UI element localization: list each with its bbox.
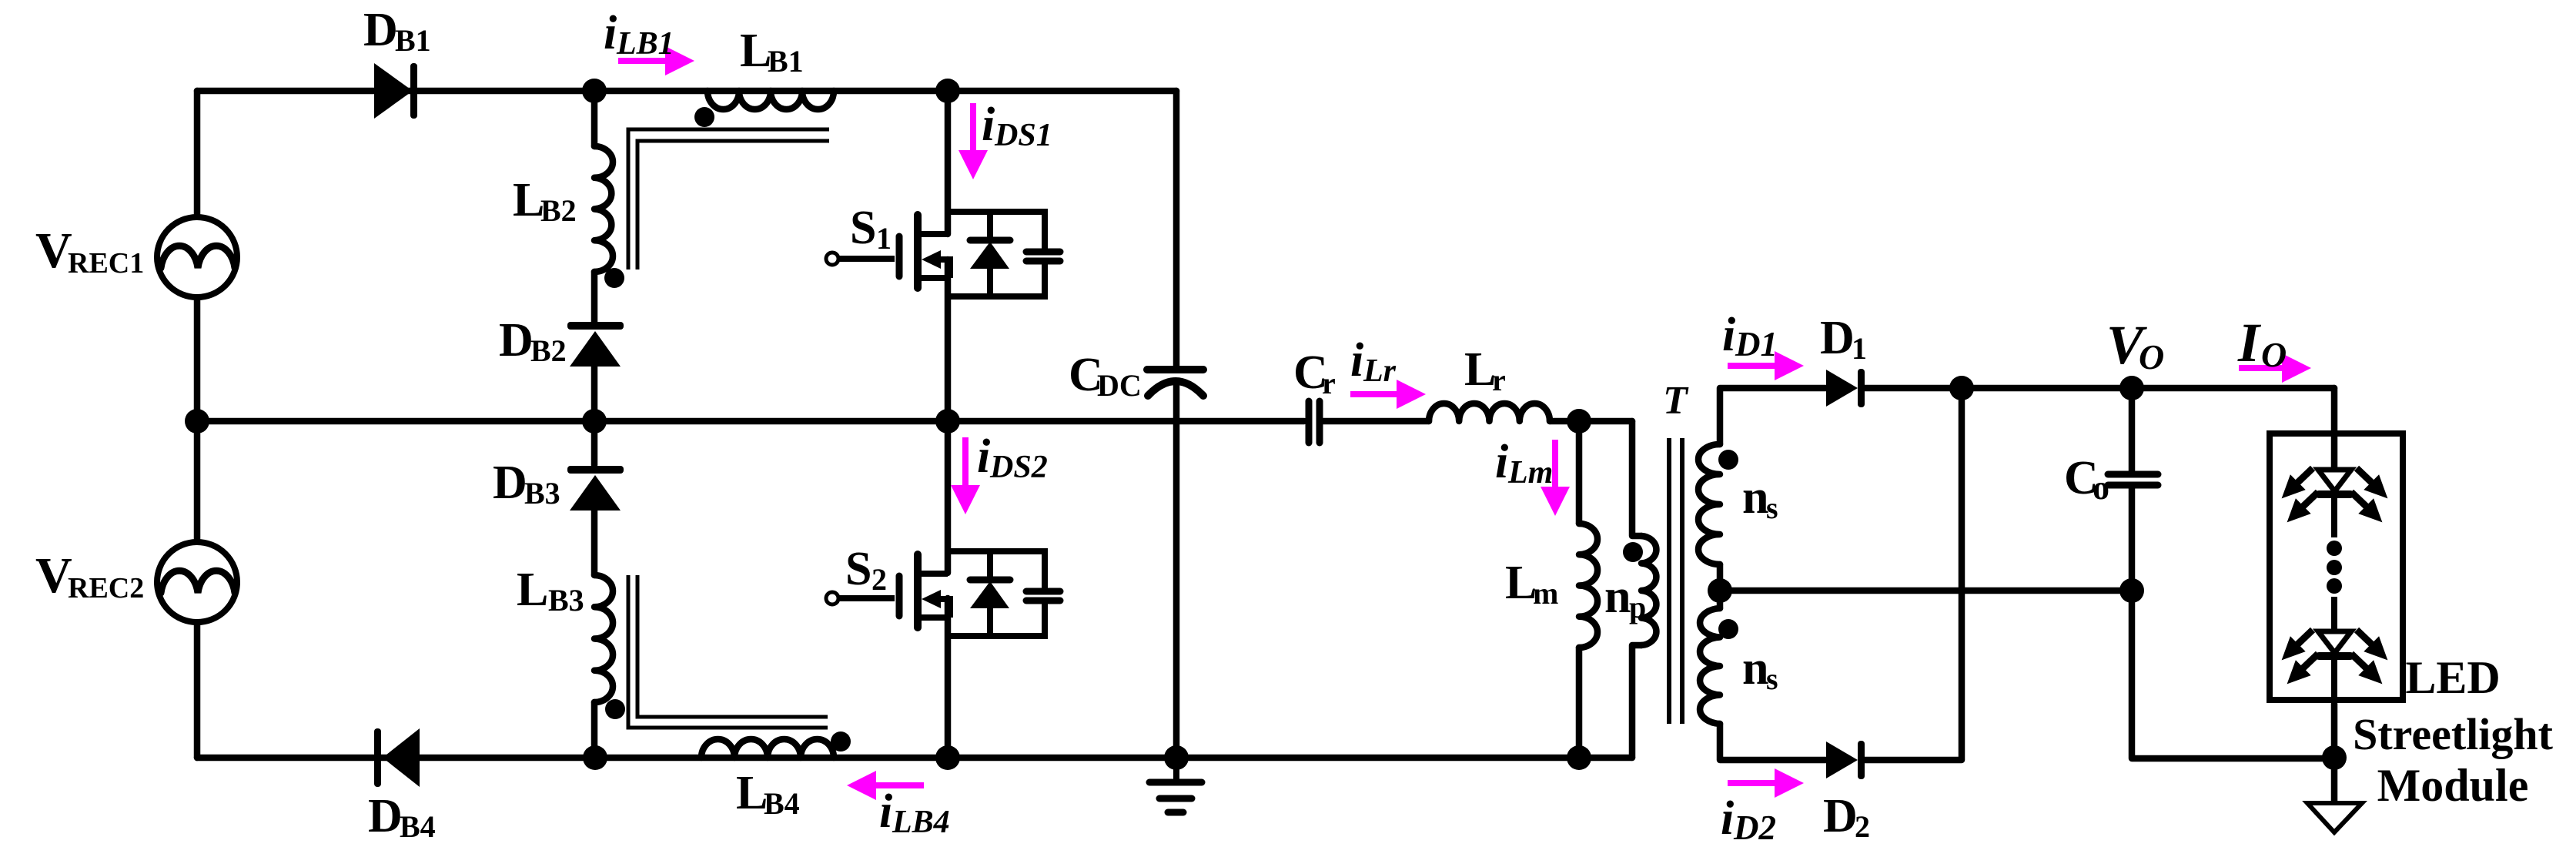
- junction node bottom rail / Lm: [1567, 745, 1591, 770]
- wire bottom rail: [197, 755, 1632, 762]
- svg-text:i: i: [977, 430, 990, 483]
- diode DB1: [374, 63, 417, 119]
- core lines LB3-LB4 (inner L): [637, 575, 828, 717]
- MOSFET S1 with body diode and capacitor: [826, 212, 1060, 296]
- svg-text:D: D: [363, 4, 398, 56]
- wire np top column: [1632, 421, 1641, 536]
- wire LB2 column top: [591, 91, 598, 146]
- svg-text:S: S: [845, 543, 871, 595]
- svg-text:LB1: LB1: [616, 26, 674, 62]
- svg-text:r: r: [1322, 366, 1336, 400]
- svg-text:DS1: DS1: [994, 118, 1052, 153]
- wire center tap to Co: [1720, 588, 2132, 594]
- capacitor Co: [2108, 474, 2158, 485]
- svg-text:2: 2: [1855, 809, 1870, 844]
- current arrow iD1: [1728, 351, 1804, 380]
- wire D2 to output column: [1865, 388, 1962, 760]
- junction node top rail / LB2: [582, 79, 607, 103]
- transformer primary winding np: [1641, 536, 1656, 645]
- wire LB2 column to DB2: [591, 272, 598, 323]
- svg-text:m: m: [1533, 576, 1558, 611]
- junction node middle rail / VREC: [185, 409, 209, 434]
- svg-text:n: n: [1604, 571, 1631, 623]
- core lines LB1-LB2 (inner L): [637, 141, 829, 269]
- polarity dot np: [1623, 542, 1643, 562]
- LED series dots: [2327, 541, 2342, 594]
- transformer secondary winding ns bottom: [1700, 608, 1720, 724]
- polarity dot LB4: [831, 731, 851, 752]
- svg-text:D: D: [1820, 312, 1855, 364]
- svg-text:B4: B4: [400, 809, 436, 844]
- svg-text:D: D: [368, 790, 403, 842]
- wire VREC1 bottom to middle rail: [194, 298, 201, 421]
- svg-text:V: V: [35, 223, 72, 279]
- wire DB2 to middle rail: [591, 367, 598, 421]
- svg-text:D1: D1: [1735, 325, 1778, 363]
- svg-text:i: i: [1350, 334, 1363, 387]
- svg-text:1: 1: [1852, 331, 1867, 366]
- svg-text:B3: B3: [548, 583, 584, 618]
- wire CDC column top: [1173, 91, 1180, 367]
- polarity dot ns top: [1718, 450, 1738, 470]
- svg-text:i: i: [604, 7, 617, 59]
- AC source VREC2: [157, 542, 237, 622]
- svg-text:B1: B1: [768, 44, 804, 79]
- junction node bottom rail / S2 source: [935, 745, 960, 770]
- current arrow iLm: [1541, 440, 1570, 516]
- ground (primary, below CDC column): [1149, 758, 1202, 812]
- svg-text:V: V: [35, 547, 72, 604]
- junction node middle rail / DB2-DB3: [582, 409, 607, 434]
- wire VREC2 bottom to bottom rail: [194, 623, 201, 758]
- inductor LB1: [708, 91, 834, 109]
- inductor LB2: [594, 146, 613, 272]
- svg-text:s: s: [1766, 490, 1778, 525]
- wire CDC column bottom (crosses middle rail, to ground rail): [1173, 383, 1180, 758]
- core lines LB1-LB2 (outer L): [628, 129, 829, 269]
- svg-text:Lr: Lr: [1363, 353, 1397, 389]
- junction node VO: [2119, 376, 2144, 400]
- wire left column upper (VREC1 to top rail): [194, 91, 201, 216]
- wire S2 drain column: [945, 421, 952, 573]
- ground (output, open triangle): [2307, 803, 2362, 832]
- junction node Co bottom: [2119, 578, 2144, 603]
- svg-text:n: n: [1742, 642, 1768, 695]
- wire LB3 coil to bottom rail: [591, 702, 598, 758]
- svg-text:O: O: [2139, 337, 2164, 377]
- wire S2 source column to bottom rail: [945, 598, 952, 758]
- polarity dot LB1: [694, 107, 714, 127]
- inductor LB4: [701, 739, 834, 758]
- svg-text:Lm: Lm: [1507, 455, 1553, 490]
- svg-text:LB4: LB4: [892, 805, 950, 840]
- svg-text:L: L: [517, 564, 548, 616]
- diode DB4 (points left): [374, 728, 420, 787]
- diode D1: [1826, 369, 1865, 407]
- current arrow iDS2: [951, 437, 980, 514]
- AC source VREC1: [157, 217, 237, 297]
- svg-text:T: T: [1663, 379, 1689, 423]
- junction node D1 output: [1949, 376, 1974, 400]
- transformer secondary winding ns top: [1698, 444, 1720, 564]
- current arrow iDS1: [958, 103, 988, 179]
- svg-text:B1: B1: [395, 23, 431, 58]
- wire middle rail junction to VREC2 top: [194, 421, 201, 541]
- wire middle rail Cr to Lr: [1323, 418, 1429, 425]
- svg-text:REC2: REC2: [68, 572, 144, 604]
- wire ns-top to D1 row: [1720, 388, 1826, 444]
- junction node transformer center tap: [1708, 578, 1732, 603]
- svg-text:i: i: [1495, 436, 1508, 488]
- svg-text:B2: B2: [530, 333, 567, 368]
- LED streetlight module box: [2270, 434, 2403, 700]
- svg-text:B4: B4: [764, 786, 800, 821]
- svg-text:o: o: [2093, 469, 2109, 507]
- current arrow iLr: [1350, 380, 1426, 409]
- svg-text:s: s: [1766, 661, 1778, 696]
- LED LED2: [2318, 597, 2351, 699]
- current arrow iD2: [1728, 768, 1804, 798]
- capacitor CDC (polarized): [1147, 370, 1203, 396]
- wire top rail: [197, 88, 1176, 95]
- svg-text:D2: D2: [1733, 808, 1776, 847]
- svg-text:LED: LED: [2405, 652, 2500, 703]
- wire ns-bottom to D2 row: [1720, 724, 1826, 760]
- junction node middle rail / S1-S2: [935, 409, 960, 434]
- svg-text:n: n: [1742, 471, 1768, 524]
- junction node middle rail / Lm: [1567, 409, 1591, 434]
- inductor LB3: [594, 575, 613, 702]
- diode DB2 (points up): [567, 322, 624, 367]
- polarity dot ns bottom: [1718, 619, 1738, 639]
- core lines LB3-LB4 (outer L): [628, 575, 828, 728]
- svg-text:DC: DC: [1097, 368, 1142, 403]
- svg-text:i: i: [982, 99, 995, 151]
- svg-text:D: D: [493, 457, 527, 509]
- junction node bottom rail / ground: [1164, 745, 1189, 770]
- wire Co column top: [2129, 388, 2136, 471]
- svg-text:r: r: [1492, 363, 1506, 397]
- svg-text:DS2: DS2: [989, 450, 1048, 485]
- wire middle rail Lr to np corner: [1550, 418, 1632, 425]
- wire middle rail left (VREC node to Cr): [197, 418, 1304, 425]
- wire LED module bottom to ground: [2331, 704, 2338, 801]
- svg-text:D: D: [499, 314, 534, 367]
- svg-text:O: O: [2261, 335, 2287, 374]
- svg-text:B2: B2: [540, 193, 577, 228]
- transformer T core lines: [1667, 438, 1671, 724]
- polarity dot LB2: [604, 268, 624, 288]
- wire Co column bottom: [2132, 488, 2334, 758]
- capacitor Cr: [1309, 401, 1320, 443]
- svg-text:S: S: [850, 202, 876, 254]
- wire VO rail into LED module: [2331, 388, 2338, 469]
- inductor Lm: [1576, 421, 1583, 524]
- wire S1 source column to middle rail: [945, 259, 952, 421]
- svg-text:i: i: [879, 785, 892, 838]
- wire D1 to VO rail: [1865, 385, 2334, 392]
- svg-text:i: i: [1722, 309, 1735, 361]
- svg-text:i: i: [1721, 792, 1734, 845]
- diode DB3 (points up): [567, 466, 624, 511]
- svg-text:D: D: [1823, 790, 1858, 842]
- current arrow iLB4: [847, 771, 924, 800]
- wire DB3 to LB3 coil: [591, 511, 598, 575]
- wire S1 drain column: [945, 91, 952, 234]
- svg-text:Streetlight: Streetlight: [2353, 709, 2554, 759]
- LED LED1: [2318, 435, 2351, 537]
- junction node bottom rail / LB3: [583, 745, 607, 770]
- svg-text:I: I: [2237, 312, 2262, 373]
- svg-text:2: 2: [871, 562, 887, 597]
- polarity dot LB3: [605, 699, 625, 719]
- current arrow iLB1: [618, 46, 694, 75]
- svg-text:Module: Module: [2377, 760, 2529, 811]
- wire np bottom to bottom rail: [1632, 645, 1641, 758]
- svg-text:p: p: [1629, 590, 1646, 624]
- MOSFET S2 with body diode and capacitor: [826, 551, 1060, 636]
- inductor Lr: [1429, 403, 1550, 421]
- svg-text:B3: B3: [524, 476, 560, 511]
- junction node LED module return: [2322, 745, 2347, 770]
- svg-text:1: 1: [876, 221, 892, 256]
- wire ns windings middle link: [1717, 564, 1724, 608]
- wire middle rail to DB3: [591, 421, 598, 465]
- diode D2: [1826, 741, 1865, 779]
- svg-text:REC1: REC1: [68, 247, 144, 280]
- current arrow IO: [2239, 353, 2311, 383]
- junction node top rail / S1 drain: [935, 79, 960, 103]
